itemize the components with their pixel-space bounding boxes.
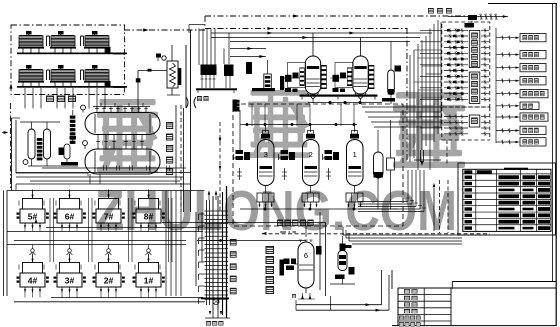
svg-text:2#: 2# xyxy=(104,276,114,286)
svg-text:3#: 3# xyxy=(65,276,75,286)
svg-text:ZHULONG.COM: ZHULONG.COM xyxy=(95,179,457,243)
svg-text:1#: 1# xyxy=(144,276,154,286)
svg-text:6: 6 xyxy=(304,251,308,260)
svg-text:6#: 6# xyxy=(65,212,75,222)
svg-text:1: 1 xyxy=(353,150,357,159)
svg-text:4#: 4# xyxy=(28,276,38,286)
